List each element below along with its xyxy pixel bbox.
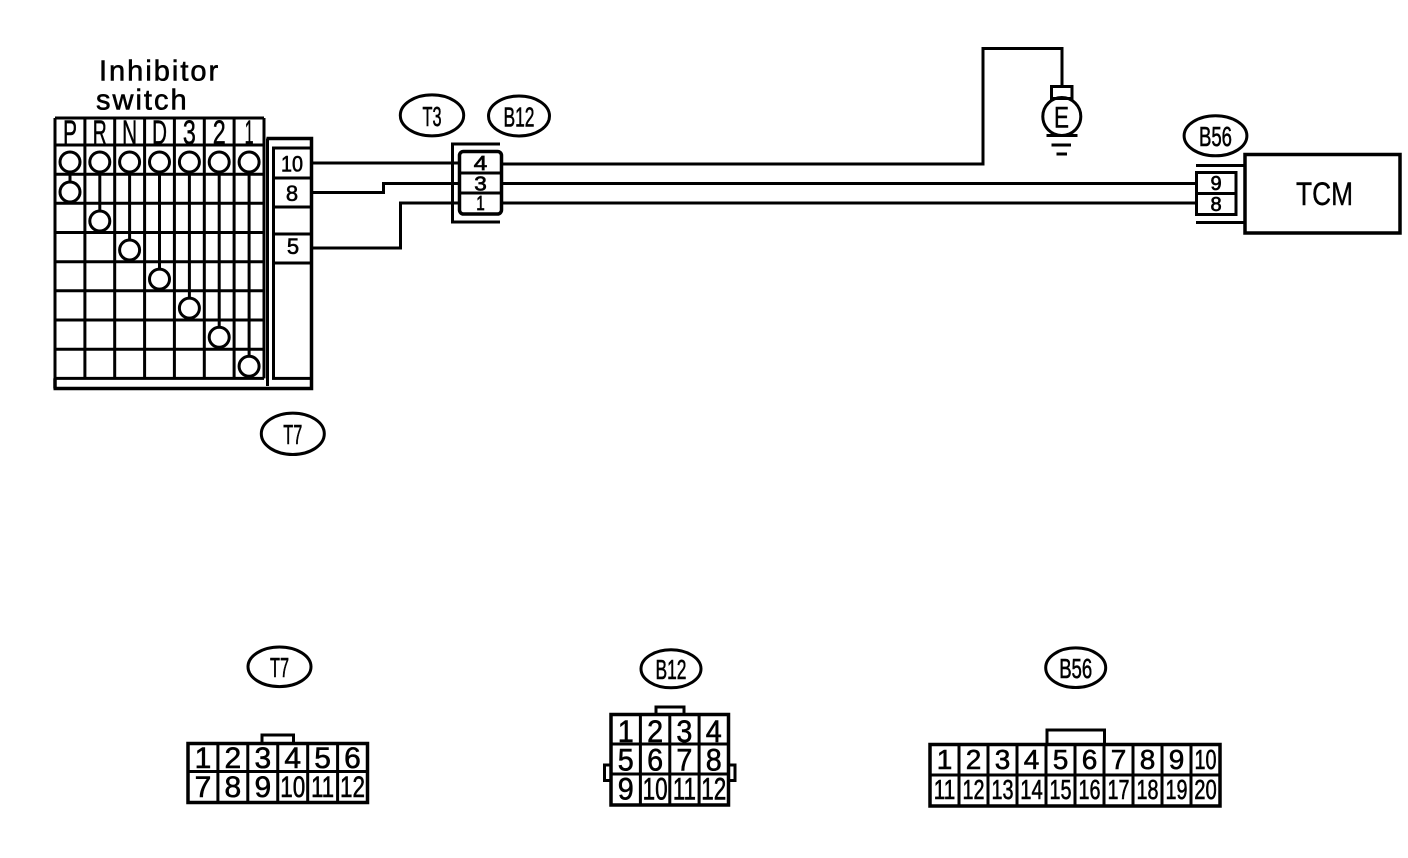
wire pin1 to TCM pin8 <box>502 202 1197 205</box>
connector T3/B12 body <box>460 152 502 215</box>
contact circle 1 <box>239 356 259 376</box>
svg-text:B56: B56 <box>1199 121 1232 152</box>
svg-text:10: 10 <box>1195 744 1217 775</box>
svg-text:9: 9 <box>1169 744 1185 775</box>
svg-text:1: 1 <box>937 744 953 775</box>
common contact circles row <box>60 152 259 172</box>
contact wires vertical <box>70 172 249 356</box>
contact circle R <box>90 211 110 231</box>
svg-text:5: 5 <box>287 234 299 259</box>
svg-text:3: 3 <box>995 744 1011 775</box>
B12 pin numbers <box>618 713 727 807</box>
oval label T7 lower <box>248 647 311 687</box>
svg-text:B12: B12 <box>504 102 535 133</box>
svg-text:14: 14 <box>1020 774 1043 805</box>
wire pin3 to TCM pin9 <box>502 182 1197 185</box>
svg-text:3: 3 <box>183 114 196 152</box>
oval label B56 lower <box>1046 648 1106 688</box>
TCM connector bracket <box>1196 166 1244 223</box>
svg-text:9: 9 <box>618 771 634 807</box>
TCM pin box <box>1197 173 1237 215</box>
svg-text:18: 18 <box>1137 774 1159 805</box>
connector T7 strip <box>274 148 312 378</box>
svg-text:12: 12 <box>340 771 365 804</box>
ground symbol <box>1047 136 1078 155</box>
svg-text:1: 1 <box>476 193 485 215</box>
svg-text:5: 5 <box>1053 744 1069 775</box>
oval label B12 upper <box>489 96 550 136</box>
svg-text:11: 11 <box>673 771 696 807</box>
oval label T3 <box>400 95 463 136</box>
svg-text:12: 12 <box>963 774 985 805</box>
svg-text:10: 10 <box>281 152 303 177</box>
svg-text:6: 6 <box>1082 744 1098 775</box>
svg-text:B12: B12 <box>656 654 687 685</box>
svg-text:7: 7 <box>1111 744 1127 775</box>
svg-text:1: 1 <box>245 114 254 152</box>
contact circle N <box>120 240 140 260</box>
svg-text:11: 11 <box>934 774 956 805</box>
svg-text:2: 2 <box>966 744 982 775</box>
contact circle P <box>60 182 80 202</box>
svg-text:R: R <box>93 114 107 152</box>
contact circle 3 <box>179 298 199 318</box>
svg-text:2: 2 <box>213 114 226 152</box>
wire pin4 to ground E <box>502 49 1063 165</box>
wire strip10 to T3 pin4 <box>312 162 460 165</box>
ground E circle <box>1043 98 1081 136</box>
connector T3/B12 bracket <box>453 144 501 222</box>
svg-text:7: 7 <box>195 771 212 804</box>
svg-text:TCM: TCM <box>1296 176 1353 212</box>
svg-text:Inhibitor: Inhibitor <box>99 56 220 88</box>
svg-text:B56: B56 <box>1059 653 1092 684</box>
svg-text:P: P <box>63 114 77 152</box>
oval label B12 lower <box>641 650 701 688</box>
switch housing outline <box>54 139 312 389</box>
TCM box <box>1245 155 1400 234</box>
B56 pin numbers <box>934 744 1217 805</box>
svg-text:10: 10 <box>280 771 305 804</box>
svg-text:8: 8 <box>1140 744 1156 775</box>
svg-text:16: 16 <box>1079 774 1101 805</box>
svg-text:D: D <box>152 114 167 152</box>
svg-text:11: 11 <box>311 771 334 804</box>
svg-text:4: 4 <box>474 153 488 175</box>
svg-text:10: 10 <box>643 771 668 807</box>
connector B12 pinout <box>605 707 736 805</box>
svg-text:4: 4 <box>1024 744 1040 775</box>
switch housing inner vertical <box>266 139 269 387</box>
svg-text:8: 8 <box>1210 194 1221 216</box>
svg-text:T7: T7 <box>270 652 289 683</box>
svg-text:E: E <box>1054 102 1069 135</box>
T7 pin numbers <box>195 742 365 804</box>
svg-text:T7: T7 <box>283 419 302 450</box>
contact circle D <box>150 269 170 289</box>
oval label T7 upper <box>261 413 324 454</box>
grid header letters P R N D 3 2 1 <box>63 114 254 152</box>
svg-text:12: 12 <box>701 771 726 807</box>
svg-text:15: 15 <box>1050 774 1072 805</box>
svg-text:3: 3 <box>474 173 487 195</box>
svg-text:T3: T3 <box>423 101 442 132</box>
oval label B56 upper <box>1184 116 1247 156</box>
contact circle 2 <box>209 327 229 347</box>
svg-text:switch: switch <box>96 85 189 117</box>
svg-text:19: 19 <box>1166 774 1188 805</box>
svg-text:N: N <box>122 114 137 152</box>
ground E connector tab <box>1052 87 1073 99</box>
svg-text:9: 9 <box>254 771 271 804</box>
wire strip5 to T3 pin1 (step) <box>312 203 460 248</box>
svg-text:13: 13 <box>992 774 1014 805</box>
inhibitor switch grid table <box>55 118 264 389</box>
connector T7 pinout <box>188 735 368 803</box>
svg-text:9: 9 <box>1210 173 1221 195</box>
wire strip8 to T3 pin3 (step) <box>312 184 460 193</box>
svg-text:17: 17 <box>1108 774 1130 805</box>
svg-text:8: 8 <box>225 771 242 804</box>
svg-text:20: 20 <box>1194 774 1217 805</box>
svg-text:8: 8 <box>286 181 298 206</box>
connector B56 pinout <box>930 730 1220 806</box>
inhibitor switch title text <box>96 56 220 117</box>
